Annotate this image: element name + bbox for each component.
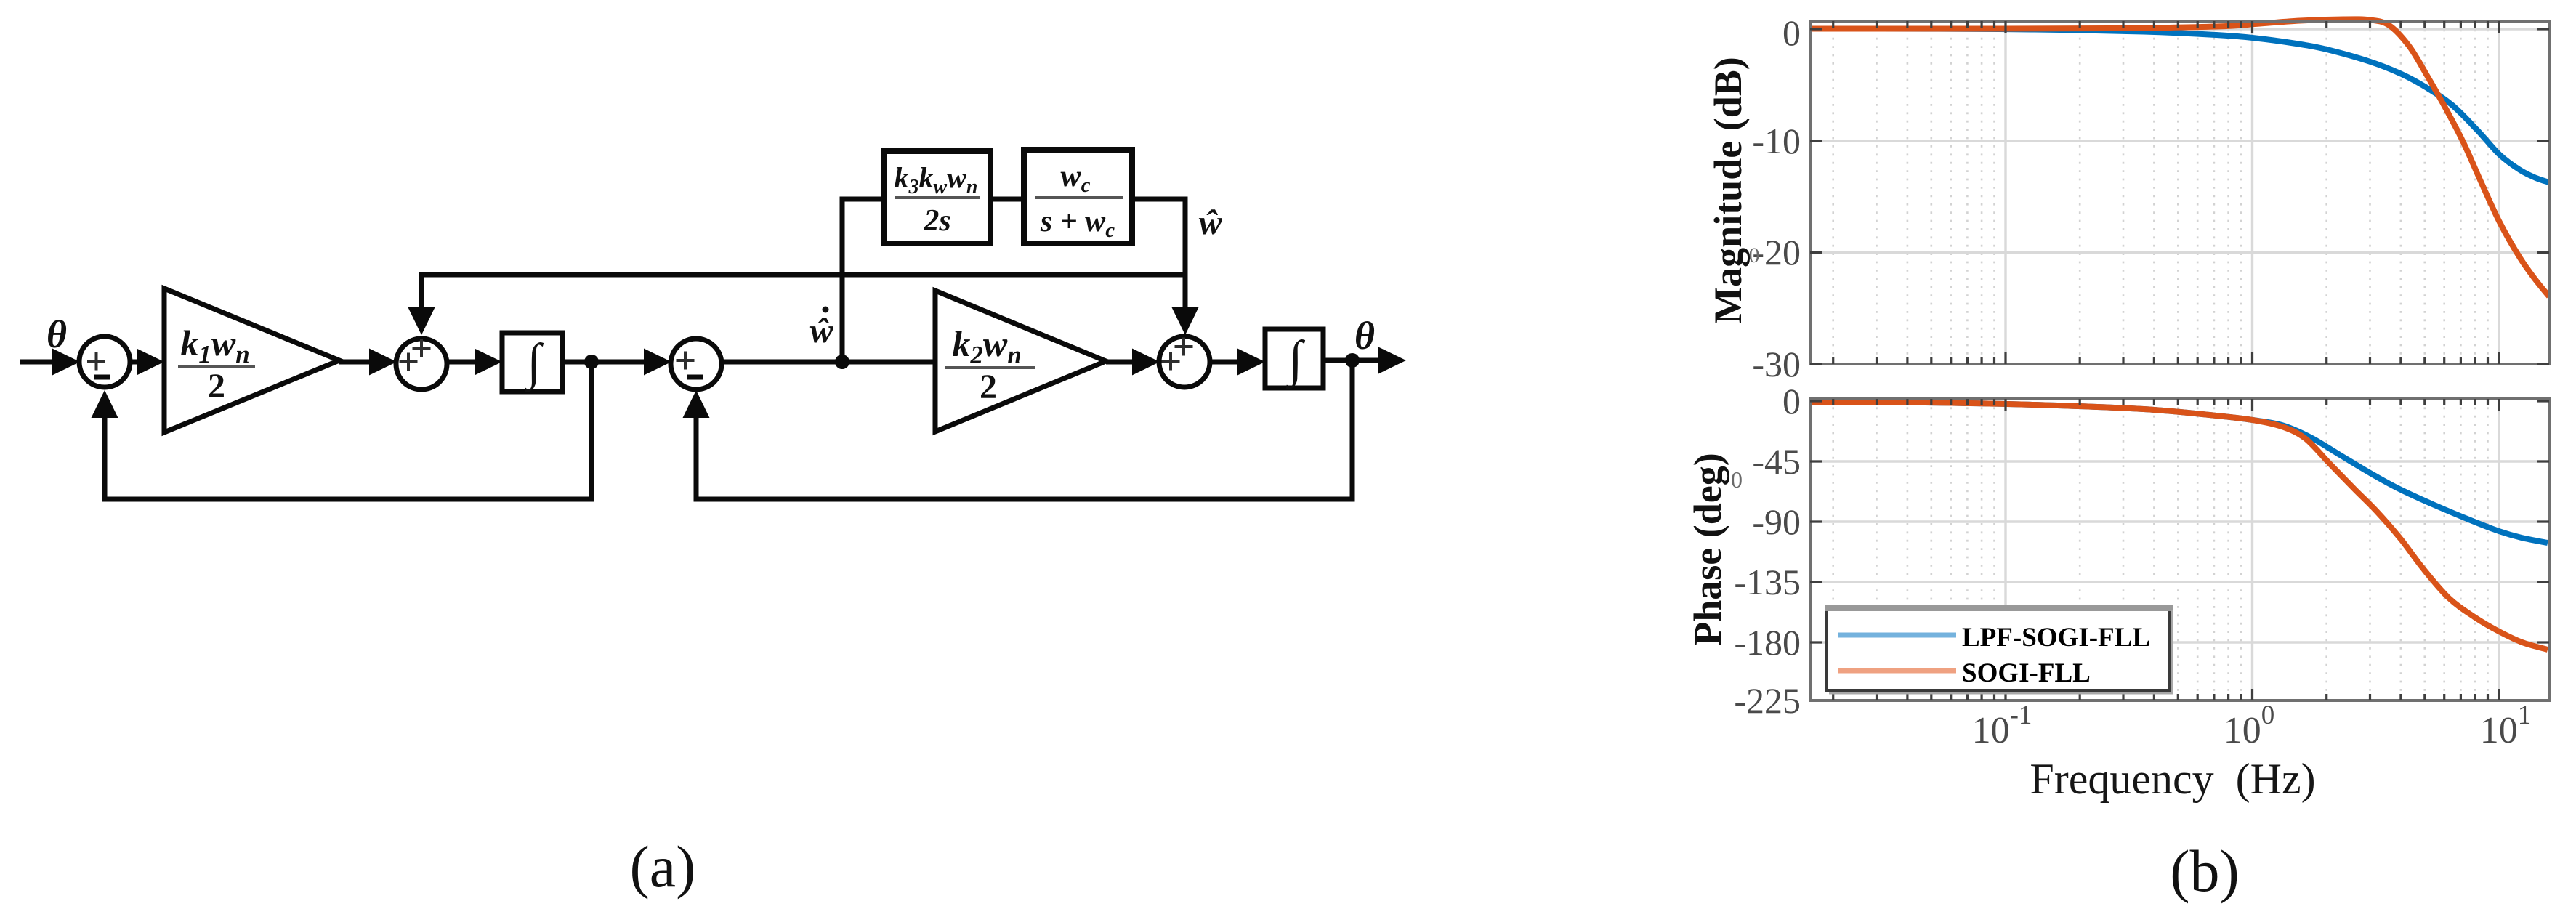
- svg-text:0: 0: [1782, 381, 1801, 421]
- legend entry SOGI-FLL: [1838, 668, 1956, 674]
- svg-text:-225: -225: [1734, 680, 1801, 721]
- minor log gridlines: [1833, 21, 2488, 364]
- magnitude curve LPF-SOGI-FLL (blue): [1810, 28, 2549, 182]
- output node: [1345, 353, 1360, 368]
- phase axes box: [1810, 399, 2549, 700]
- svg-text:θ: θ: [47, 312, 67, 356]
- svg-text:-45: -45: [1752, 441, 1801, 482]
- svg-text:-90: -90: [1752, 501, 1801, 542]
- summing junction S3: [671, 339, 722, 389]
- svg-text:∫: ∫: [524, 334, 544, 392]
- phase curve SOGI-FLL (orange): [1810, 402, 2548, 650]
- wire between LPF blocks: [990, 197, 1024, 202]
- svg-text:2s: 2s: [923, 204, 950, 238]
- integrator block 2: [1265, 329, 1323, 388]
- svg-text:∫: ∫: [1285, 331, 1305, 389]
- svg-text:0: 0: [1731, 466, 1743, 493]
- major gridlines: [1810, 399, 2549, 700]
- svg-text:Frequency (Hz): Frequency (Hz): [2030, 755, 2315, 803]
- wire w-hat-dot up to LPF branch: [840, 197, 845, 363]
- major gridlines: [1810, 21, 2549, 364]
- x tick labels: [1972, 700, 2532, 751]
- axis ticks: [1810, 399, 2549, 700]
- wire S3 to gain K2: [721, 360, 935, 365]
- feedback wire (w-hat) into S2 from top: [419, 272, 424, 313]
- svg-text:-135: -135: [1734, 562, 1801, 602]
- svg-text:2: 2: [980, 368, 997, 406]
- svg-text:s + wc: s + wc: [1040, 205, 1115, 242]
- svg-text:-180: -180: [1734, 622, 1801, 663]
- phase y tick labels: [1734, 381, 1801, 721]
- transfer block k3kwwn/2s: [884, 151, 990, 243]
- magnitude axes box: [1810, 21, 2549, 364]
- svg-text:0: 0: [1749, 243, 1760, 267]
- summing junction S2: [396, 339, 447, 389]
- magnitude y tick labels: [1752, 12, 1801, 384]
- svg-text:SOGI-FLL: SOGI-FLL: [1962, 658, 2091, 688]
- svg-text:(b): (b): [2170, 838, 2240, 904]
- svg-text:Phase (deg): Phase (deg): [1686, 453, 1729, 645]
- svg-text:(a): (a): [629, 833, 695, 900]
- summing junction S1: [79, 336, 130, 387]
- wire S4 to integrator 2: [1209, 360, 1239, 365]
- legend box: [1826, 609, 2169, 690]
- svg-text:-30: -30: [1752, 344, 1801, 384]
- wire S2 to integrator 1: [446, 360, 476, 365]
- svg-text:ŵ: ŵ: [1198, 203, 1222, 242]
- magnitude curve SOGI-FLL (orange): [1810, 19, 2549, 296]
- transfer block wc/(s+wc): [1024, 150, 1132, 243]
- wire K1 to S2: [339, 360, 372, 365]
- svg-text:ŵ: ŵ: [809, 312, 833, 350]
- axis ticks: [1810, 21, 2549, 364]
- legend entry LPF-SOGI-FLL: [1838, 633, 1956, 638]
- integrator block 1: [502, 333, 562, 392]
- svg-text:θ: θ: [1354, 314, 1375, 357]
- wire K2 to S4: [1106, 360, 1134, 365]
- node w-hat-dot: [835, 355, 849, 369]
- wire integrator1 to S3: [562, 360, 647, 365]
- svg-text:Magnitude (dB): Magnitude (dB): [1706, 57, 1750, 324]
- phase curve LPF-SOGI-FLL (blue): [1810, 402, 2548, 543]
- gain block K2 (k2wn/2): [935, 291, 1106, 432]
- svg-text:0: 0: [1782, 12, 1801, 53]
- feedback wire loop 1 (to S1): [589, 362, 594, 502]
- wire w-hat output to S4: [1132, 197, 1185, 202]
- svg-text:-10: -10: [1752, 121, 1801, 161]
- wire S1 to gain K1: [129, 360, 138, 365]
- output wire theta-hat: [1323, 358, 1381, 363]
- svg-text:LPF-SOGI-FLL: LPF-SOGI-FLL: [1962, 623, 2150, 653]
- feedback wire loop 2 (to S3): [1350, 360, 1355, 502]
- summing junction S4: [1159, 336, 1210, 387]
- gain block K1 (k1wn/2): [164, 288, 339, 432]
- svg-text:2: 2: [208, 367, 225, 405]
- node after integrator 1: [584, 355, 599, 369]
- input wire: [20, 360, 52, 365]
- minor log gridlines: [1833, 399, 2488, 700]
